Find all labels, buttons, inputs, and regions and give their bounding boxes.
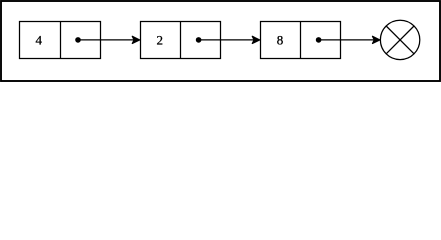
node N2 box [141,22,221,59]
NULL terminator crossed circle [380,20,419,59]
node N1 pointer dot [75,37,81,43]
node N3 box [261,22,341,59]
outer frame [1,1,440,81]
svg-text:2: 2 [157,32,164,47]
wire arrow N2 to N3 [199,36,260,43]
svg-text:4: 4 [36,32,43,47]
wire arrow N1 to N2 [78,36,140,43]
wire arrow N3 to NULL [319,36,380,43]
svg-text:8: 8 [277,32,284,47]
node N2 pointer dot [196,37,202,43]
node N3 pointer dot [316,37,322,43]
node N1 box [20,22,101,59]
